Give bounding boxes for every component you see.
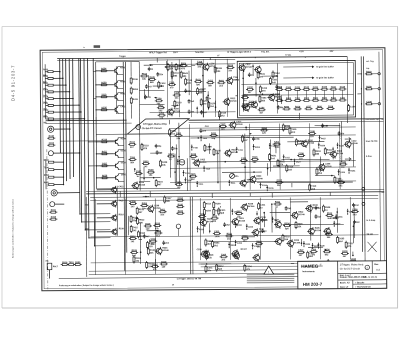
svg-text:BC548: BC548 <box>248 205 255 208</box>
svg-text:R109: R109 <box>322 87 328 89</box>
svg-text:BC548: BC548 <box>315 229 322 232</box>
svg-text:R512: R512 <box>130 236 136 238</box>
svg-text:BC548: BC548 <box>308 142 315 145</box>
svg-text:T204: T204 <box>311 248 317 251</box>
svg-text:D205: D205 <box>121 174 127 176</box>
svg-text:22p: 22p <box>176 138 180 140</box>
svg-text:T310: T310 <box>197 61 203 63</box>
svg-text:C104: C104 <box>49 142 55 145</box>
svg-text:10n: 10n <box>160 214 164 216</box>
svg-text:to X-Amp: to X-Amp <box>366 219 376 222</box>
svg-text:R204: R204 <box>133 88 139 91</box>
svg-text:Ch-Sel./CT-Circuit: Ch-Sel./CT-Circuit <box>340 268 360 271</box>
svg-text:T310: T310 <box>311 186 317 188</box>
svg-text:Rev.: Rev. <box>374 264 379 266</box>
svg-text:C311: C311 <box>309 253 315 255</box>
svg-text:C208: C208 <box>162 162 168 164</box>
svg-text:R204: R204 <box>284 105 290 108</box>
svg-text:0.3: 0.3 <box>376 268 380 272</box>
svg-text:BC548: BC548 <box>325 165 332 168</box>
svg-text:R109: R109 <box>119 228 125 230</box>
svg-text:C311: C311 <box>212 216 218 218</box>
svg-text:R641: R641 <box>322 97 328 100</box>
svg-text:CH II: CH II <box>173 52 178 54</box>
svg-text:R318: R318 <box>284 236 290 238</box>
svg-text:R109: R109 <box>366 86 372 88</box>
svg-text:1/Trigger, Mains Amp.: 1/Trigger, Mains Amp. <box>340 263 365 266</box>
svg-text:100k: 100k <box>215 236 221 238</box>
svg-text:Blatt: 2 von 7: Blatt: 2 von 7 <box>340 274 351 277</box>
svg-text:R318: R318 <box>62 262 68 264</box>
svg-text:C311: C311 <box>295 87 301 89</box>
svg-text:R318: R318 <box>119 214 125 216</box>
svg-text:R226: R226 <box>252 157 258 159</box>
svg-text:R318: R318 <box>295 106 301 108</box>
svg-text:C412: C412 <box>160 82 166 85</box>
svg-text:≈: ≈ <box>83 46 85 50</box>
svg-text:HF/LF-Trigger Sel.: HF/LF-Trigger Sel. <box>149 51 167 54</box>
svg-text:T415: T415 <box>119 199 125 202</box>
svg-text:R204: R204 <box>286 97 292 100</box>
svg-text:C104: C104 <box>366 100 372 103</box>
svg-text:R411: R411 <box>160 208 166 211</box>
svg-text:〈: 〈 <box>338 136 341 140</box>
svg-text:BC548: BC548 <box>337 152 344 155</box>
svg-text:R109: R109 <box>132 250 138 252</box>
svg-text:R411: R411 <box>327 149 333 152</box>
svg-text:T415: T415 <box>297 222 303 225</box>
svg-text:R333: R333 <box>217 68 223 70</box>
svg-text:T415: T415 <box>158 180 164 183</box>
svg-text:R512: R512 <box>227 233 233 235</box>
svg-text:C311: C311 <box>174 73 180 75</box>
svg-text:from CH I: from CH I <box>195 52 204 54</box>
svg-text:R512: R512 <box>139 209 145 211</box>
svg-text:C104: C104 <box>247 86 253 89</box>
svg-text:D118: D118 <box>143 145 149 147</box>
svg-text:D205: D205 <box>75 262 81 264</box>
svg-text:R512: R512 <box>304 98 310 100</box>
svg-text:C412: C412 <box>262 87 268 90</box>
svg-text:Änderungen vorbehalten ( Subje: Änderungen vorbehalten ( Subject to chan… <box>59 284 114 287</box>
svg-text:10n: 10n <box>243 241 247 243</box>
svg-text:Inp.: Inp. <box>366 68 370 70</box>
svg-text:C527: C527 <box>298 250 304 252</box>
svg-text:D118: D118 <box>210 103 216 105</box>
svg-text:R641: R641 <box>313 97 319 100</box>
svg-text:Bearb. HJ: Bearb. HJ <box>340 281 351 284</box>
svg-text:to Trigger 150/3 at TR 708: to Trigger 150/3 at TR 708 <box>177 277 202 280</box>
svg-text:C311: C311 <box>241 158 247 160</box>
svg-text:Ch-Sel./CT-Circuit: Ch-Sel./CT-Circuit <box>142 127 162 130</box>
svg-text:BC548: BC548 <box>351 142 358 145</box>
svg-text:Zchn.-Nr. 203-7/2: Zchn.-Nr. 203-7/2 <box>363 277 377 279</box>
svg-text:R204: R204 <box>142 202 148 205</box>
svg-text:R411: R411 <box>51 209 57 212</box>
svg-text:R512: R512 <box>304 87 310 89</box>
svg-text:D118: D118 <box>221 112 227 114</box>
svg-text:D118: D118 <box>145 223 151 225</box>
svg-text:from TR 708: from TR 708 <box>366 141 378 143</box>
svg-text:R333: R333 <box>178 65 184 67</box>
svg-text:R226: R226 <box>102 175 108 177</box>
svg-text:C311: C311 <box>313 87 319 89</box>
svg-text:T310: T310 <box>69 262 75 264</box>
svg-text:C104: C104 <box>178 197 184 200</box>
svg-text:1/Trigger, Mains Amp.: 1/Trigger, Mains Amp. <box>143 123 167 126</box>
svg-text:T310: T310 <box>220 124 226 126</box>
svg-text:R641: R641 <box>171 130 177 133</box>
svg-text:to gain line buffer: to gain line buffer <box>316 65 334 68</box>
svg-text:R512: R512 <box>218 266 224 268</box>
svg-text:R226: R226 <box>228 65 234 67</box>
svg-text:D205: D205 <box>121 150 127 152</box>
svg-text:R204: R204 <box>101 67 107 70</box>
svg-text:D118: D118 <box>340 87 346 89</box>
svg-text:T310: T310 <box>331 87 337 89</box>
svg-text:C208: C208 <box>130 201 136 203</box>
svg-text:C311: C311 <box>260 205 266 207</box>
svg-text:R411: R411 <box>196 78 202 81</box>
svg-text:Gepr. LF: Gepr. LF <box>340 286 349 289</box>
svg-text:C527: C527 <box>237 211 243 213</box>
svg-text:RbLT: RbLT <box>53 266 59 268</box>
svg-text:R318: R318 <box>208 255 214 257</box>
svg-text:22p: 22p <box>211 138 215 140</box>
svg-text:ext. Trig.: ext. Trig. <box>366 60 374 63</box>
svg-text:R512: R512 <box>139 219 145 221</box>
svg-text:D118: D118 <box>150 250 156 252</box>
svg-text:T415: T415 <box>191 173 197 176</box>
svg-text:D118: D118 <box>176 102 182 104</box>
svg-text:TP 201: TP 201 <box>285 55 291 57</box>
svg-text:〈: 〈 <box>338 156 341 160</box>
svg-text:R512: R512 <box>206 203 212 205</box>
svg-text:R411: R411 <box>158 104 164 107</box>
svg-text:R512: R512 <box>327 213 333 215</box>
svg-text:BC548: BC548 <box>298 213 305 216</box>
svg-text:10n: 10n <box>175 98 179 100</box>
svg-text:C208: C208 <box>298 153 304 155</box>
svg-text:D205: D205 <box>339 238 345 240</box>
svg-text:T204: T204 <box>336 177 342 180</box>
svg-text:X-Pos.: X-Pos. <box>366 156 373 158</box>
svg-text:C104: C104 <box>259 106 265 109</box>
svg-text:R109: R109 <box>215 203 221 205</box>
svg-text:R109: R109 <box>148 170 154 172</box>
svg-text:C104: C104 <box>207 240 213 243</box>
svg-text:T310: T310 <box>187 80 193 82</box>
svg-text:C208: C208 <box>156 98 162 100</box>
svg-text:T310: T310 <box>295 98 301 100</box>
svg-text:C311: C311 <box>207 267 213 269</box>
svg-text:T415: T415 <box>133 226 139 229</box>
svg-text:CH I: CH I <box>205 126 210 128</box>
svg-text:R226: R226 <box>191 154 197 156</box>
svg-text:T310: T310 <box>326 232 332 234</box>
svg-text:T310: T310 <box>101 94 107 96</box>
svg-text:R641: R641 <box>317 105 323 108</box>
svg-text:C527: C527 <box>306 106 312 108</box>
svg-text:R318: R318 <box>51 217 57 219</box>
svg-text:R641: R641 <box>219 79 225 82</box>
svg-text:R318: R318 <box>130 142 136 144</box>
svg-text:BC548: BC548 <box>200 161 207 164</box>
svg-text:T310: T310 <box>272 79 278 81</box>
svg-text:C208: C208 <box>197 249 203 251</box>
svg-text:C104: C104 <box>350 105 356 108</box>
svg-text:10n: 10n <box>207 270 211 272</box>
svg-text:R109: R109 <box>101 82 107 84</box>
svg-text:CH II: CH II <box>285 125 290 127</box>
svg-text:!: ! <box>268 270 269 274</box>
svg-text:R641: R641 <box>260 73 266 76</box>
svg-text:ext. Horiz. Inp.: ext. Horiz. Inp. <box>366 118 380 121</box>
svg-text:T204: T204 <box>274 141 280 144</box>
svg-text:R641: R641 <box>183 72 189 75</box>
svg-text:R333: R333 <box>341 162 347 164</box>
svg-text:C208: C208 <box>310 131 316 133</box>
svg-text:C104: C104 <box>246 265 252 268</box>
svg-text:R318: R318 <box>366 71 372 73</box>
svg-text:R411: R411 <box>211 132 217 135</box>
svg-text:T204: T204 <box>261 97 267 100</box>
svg-text:C311: C311 <box>220 210 226 212</box>
svg-text:Änderungen vorbehalten / Subje: Änderungen vorbehalten / Subject to chan… <box>12 198 15 258</box>
svg-text:to gain line buffer: to gain line buffer <box>316 76 334 79</box>
svg-text:+12V: +12V <box>299 51 304 53</box>
svg-text:R641: R641 <box>271 154 277 157</box>
svg-text:D118: D118 <box>328 106 334 108</box>
svg-text:R226: R226 <box>178 204 184 206</box>
svg-text:BC327: BC327 <box>241 249 248 251</box>
svg-text:D118: D118 <box>121 162 127 164</box>
svg-text:D205: D205 <box>215 150 221 152</box>
svg-text:T204: T204 <box>130 156 136 159</box>
svg-text:R411: R411 <box>102 150 108 153</box>
svg-text:D118: D118 <box>133 79 139 81</box>
svg-text:T204: T204 <box>221 253 227 256</box>
svg-text:R333: R333 <box>143 161 149 163</box>
svg-text:R512: R512 <box>142 73 148 75</box>
svg-text:C412: C412 <box>118 185 124 188</box>
svg-text:C527: C527 <box>166 198 172 200</box>
svg-text:to Trigger-Logic Sheet 2: to Trigger-Logic Sheet 2 <box>227 51 252 54</box>
svg-text:C104: C104 <box>286 86 292 89</box>
svg-text:BC548: BC548 <box>162 249 169 252</box>
svg-text:-12V: -12V <box>329 51 334 53</box>
svg-text:C412: C412 <box>262 126 268 129</box>
svg-text:HM 203-7: HM 203-7 <box>303 282 323 287</box>
svg-text:R318: R318 <box>148 263 154 265</box>
svg-text:BC548: BC548 <box>239 219 246 222</box>
svg-text:R109: R109 <box>342 251 348 253</box>
svg-text:R226: R226 <box>150 77 156 79</box>
svg-text:R411: R411 <box>133 98 139 101</box>
svg-text:R109: R109 <box>121 138 127 140</box>
svg-text:BC548: BC548 <box>230 100 237 103</box>
svg-text:C527: C527 <box>136 171 142 173</box>
svg-text:C104: C104 <box>351 258 357 261</box>
svg-text:BC548: BC548 <box>294 241 301 244</box>
svg-text:R318: R318 <box>102 139 108 141</box>
svg-text:R318: R318 <box>315 151 321 153</box>
svg-text:Trigger: Trigger <box>119 56 126 58</box>
svg-text:T204: T204 <box>206 209 212 212</box>
svg-text:C311: C311 <box>214 231 220 233</box>
svg-text:T415: T415 <box>102 162 108 165</box>
svg-text:BC548: BC548 <box>236 123 243 126</box>
svg-text:C412: C412 <box>208 79 214 82</box>
svg-text:C527: C527 <box>168 154 174 156</box>
svg-text:BC548: BC548 <box>256 177 263 180</box>
svg-text:15: 15 <box>172 284 174 286</box>
svg-text:D205: D205 <box>101 107 107 109</box>
svg-text:C311: C311 <box>340 98 346 100</box>
svg-text:D4-5 91-203-7: D4-5 91-203-7 <box>11 65 16 101</box>
svg-text:R226: R226 <box>178 211 184 213</box>
svg-text:R109: R109 <box>325 207 331 209</box>
svg-text:Trig. Sel.: Trig. Sel. <box>261 51 270 53</box>
svg-text:T415: T415 <box>291 128 297 131</box>
svg-text:R411: R411 <box>275 201 281 204</box>
svg-text:R411: R411 <box>331 97 337 100</box>
svg-text:R318: R318 <box>49 136 55 138</box>
svg-text:BC548: BC548 <box>246 66 253 69</box>
svg-text:✓ Buchwald+23: ✓ Buchwald+23 <box>355 285 372 288</box>
svg-text:Instruments: Instruments <box>302 270 315 273</box>
svg-text:✓ Bruche: ✓ Bruche <box>355 281 365 284</box>
